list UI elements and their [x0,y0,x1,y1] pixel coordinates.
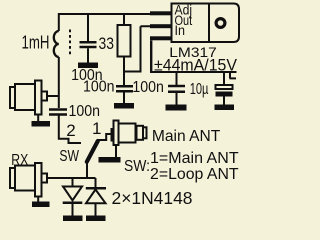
BNC J2 body [119,124,136,143]
BNC J2 tip outer [137,126,144,140]
wire out junction horizontal [124,71,141,73]
svg-text:SW: SW [59,148,79,165]
ground below C3 [114,103,134,109]
pin In [150,36,172,40]
wire RX node horizontal [47,177,96,179]
diode D1 cathode bar [63,202,83,205]
BNC J2 tip inner [143,127,147,138]
wire D2 to ground [95,204,97,216]
wire top supply rail [59,13,150,15]
wire inductor down to node A [58,57,60,108]
ground below C1 [78,63,98,69]
capacitor C5 10u electrolytic plus plate [216,85,233,89]
capacitor C2 100n series plates [49,110,67,115]
LM317 U1 package outline [172,4,240,43]
svg-text:2: 2 [66,121,75,140]
wire J1 pin to node A [47,95,59,97]
ground below J3 [32,202,50,208]
wire C5 to ground [223,97,225,105]
capacitor C3 100n plates [116,86,133,91]
wire rail branch to C4 [176,73,178,85]
ground below D2 [86,216,106,222]
BNC J3 body [15,166,35,191]
wire left vertical from rail to inductor [58,13,60,31]
BNC J1 loop antenna input: end cap [10,87,15,108]
svg-text:In: In [175,23,186,38]
BNC J3 RX output: end cap [10,168,15,188]
capacitor C5 minus plate [216,92,233,97]
wire C3 to ground [123,93,125,104]
wire C4 to ground [176,93,178,105]
switch SW lever [87,141,98,162]
svg-text:100n: 100n [69,103,101,120]
BNC J3 flange [35,163,42,197]
svg-text:10µ: 10µ [190,81,209,98]
svg-text:SW:: SW: [124,158,150,175]
wire +15V rail [150,71,237,73]
wire R1 bottom to C3 [123,57,125,86]
wire J2 flange to ground [115,145,117,157]
wire switch contact 1 to J2 pin [98,134,111,140]
wire rail branch down to C1 [87,13,89,41]
wire J1 flange to ground [37,115,39,122]
ground below C4 [166,105,187,111]
ground below J2 [99,157,121,163]
wire J3 flange to ground [37,197,39,202]
supply connector 15V in [230,72,237,78]
inductor L1 1mH (two arcs) [54,31,59,57]
svg-text:100n: 100n [132,79,164,96]
svg-text:1mH: 1mH [22,32,50,52]
BNC J1 pin [42,92,48,101]
wire C1 to ground [87,48,89,62]
wire In pin down to +15V rail [150,41,152,73]
wire D1 to ground [72,204,74,216]
inductor core dashed line [69,30,71,57]
LM317 mounting hole [216,19,225,28]
wire C2 to switch contact 2 [59,116,81,144]
BNC J2 main antenna: pin [111,128,114,142]
svg-text:100n: 100n [83,79,115,96]
pin Out [150,24,172,28]
BNC J1 body [15,84,35,110]
diode D2 triangle [86,190,106,204]
wire rail branch to C5 [223,73,225,85]
wire out junction vertical to Out pin [141,26,151,72]
diode D2 cathode bar [86,187,106,190]
capacitor C4 100n plates [168,86,185,92]
svg-text:2×1N4148: 2×1N4148 [112,188,193,208]
wire rail branch down to R1 [123,13,125,25]
svg-text:Main ANT: Main ANT [152,128,221,145]
resistor R1 33 [118,25,131,57]
svg-text:33: 33 [99,34,115,53]
ground below D1 [63,216,83,222]
LM317 divider line [208,4,210,43]
ground below J1 [32,121,51,127]
svg-text:1: 1 [92,119,101,138]
wire lever pivot down to RX node [86,162,88,178]
diode D1 1N4148 triangle [63,187,82,201]
pin Adj [150,11,172,15]
ground below C5 [215,105,235,111]
svg-text:1=Main ANT: 1=Main ANT [150,150,239,167]
BNC J2 flange [114,121,119,146]
BNC J3 pin [42,174,48,183]
capacitor C1 100n plates [80,42,97,47]
wire node to D1 [72,178,74,186]
wire node to D2 [95,178,97,188]
BNC J1 flange [35,81,42,115]
svg-text:2=Loop ANT: 2=Loop ANT [150,166,239,183]
